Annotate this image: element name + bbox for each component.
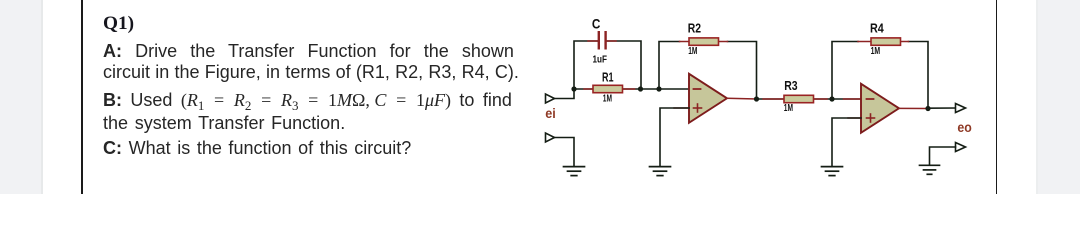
- wire input reference to ground: [555, 138, 575, 166]
- left page soft edge: [41, 0, 43, 194]
- resistor R2 label: [688, 21, 701, 35]
- resistor R4 label: [870, 22, 884, 36]
- left gray margin: [0, 0, 41, 194]
- resistor R4 body: [871, 38, 901, 45]
- svg-text:eo: eo: [957, 120, 971, 135]
- svg-text:C: C: [592, 16, 601, 32]
- line B1: [103, 91, 512, 109]
- capacitor value 1uF: [593, 54, 608, 65]
- svg-text:1M: 1M: [603, 94, 612, 105]
- svg-text:ei: ei: [545, 106, 556, 121]
- heading Q1): [103, 14, 134, 33]
- svg-text:1M: 1M: [688, 46, 697, 57]
- svg-text:1M: 1M: [784, 103, 793, 114]
- resistor R3 label: [784, 79, 797, 93]
- op-amp U2 minus sign: [867, 98, 874, 100]
- resistor R2 body: [689, 38, 719, 45]
- resistor R4 pin leads: [858, 41, 909, 43]
- wire U2 plus input to ground: [832, 118, 861, 166]
- resistor R4 value 1M: [871, 46, 881, 57]
- node F junction dot (U2 out): [925, 106, 930, 111]
- resistor R2 value 1M: [688, 46, 697, 57]
- ground (output reference): [920, 165, 940, 174]
- table cell left border: [81, 0, 83, 194]
- svg-text:R3: R3: [784, 79, 797, 93]
- wire capacitor branch left: [574, 41, 598, 89]
- op-amp U2 plus sign: [867, 114, 875, 122]
- output reference terminal arrow: [956, 143, 966, 152]
- output terminal eo arrow: [956, 104, 966, 113]
- wire output reference to ground: [930, 147, 956, 164]
- resistor R1 body: [593, 85, 623, 92]
- node D junction dot (U1 out): [754, 96, 759, 101]
- resistor R1 pin leads: [584, 88, 635, 90]
- op-amp U1 minus sign: [694, 88, 701, 90]
- capacitor C plates: [598, 31, 607, 50]
- wire input jog to node A: [555, 89, 575, 99]
- table cell right border: [996, 0, 997, 194]
- op-amp U1 body: [689, 74, 727, 123]
- line A2: [103, 63, 519, 81]
- line A1: [103, 42, 514, 60]
- wire stage2 net: [757, 98, 862, 100]
- label eo: [957, 120, 971, 135]
- wire main net stage1: [574, 88, 689, 90]
- op-amp U1 plus input pin stub: [674, 107, 689, 109]
- resistor R3 value 1M: [784, 103, 793, 114]
- resistor R2 pin leads: [680, 41, 728, 43]
- node A junction dot: [571, 86, 576, 91]
- svg-text:1M: 1M: [871, 46, 881, 57]
- op-amp U2 plus input pin stub: [848, 117, 861, 119]
- wire R4 feedback loop: [832, 42, 928, 109]
- node B junction dot (C right): [638, 86, 643, 91]
- wire R2 feedback loop: [659, 42, 757, 100]
- ground (U1 plus input): [650, 167, 671, 176]
- label ei: [545, 106, 556, 121]
- op-amp U2 body: [861, 84, 899, 133]
- wire U1 plus input to ground: [660, 108, 689, 166]
- ground (U2 plus input): [822, 167, 843, 176]
- op-amp U2 output pin: [899, 107, 928, 109]
- wire capacitor branch right: [607, 41, 641, 89]
- ground (input reference): [564, 167, 585, 176]
- node C junction dot (R2 left): [656, 86, 661, 91]
- input terminal ei arrow: [546, 94, 555, 103]
- resistor R3 pin leads: [763, 98, 827, 100]
- svg-text:R2: R2: [688, 21, 701, 35]
- svg-text:R4: R4: [870, 22, 884, 36]
- wire U2 out to eo terminal: [928, 107, 956, 109]
- line C1: [103, 139, 411, 157]
- input reference terminal arrow: [546, 133, 555, 142]
- capacitor label C: [592, 16, 601, 32]
- op-amp U2 minus input pin stub: [844, 98, 862, 100]
- op-amp U1 output pin: [727, 97, 757, 100]
- line B2: [103, 114, 345, 132]
- resistor R1 label: [602, 70, 614, 84]
- svg-text:R1: R1: [602, 70, 614, 84]
- resistor R1 value 1M: [603, 94, 612, 105]
- node E junction dot (R4 left): [829, 96, 834, 101]
- resistor R3 body: [784, 95, 814, 102]
- op-amp U1 plus sign: [694, 104, 702, 112]
- right page soft edge: [1036, 0, 1038, 194]
- capacitor C pin stubs: [588, 40, 616, 42]
- right gray margin: [1038, 0, 1080, 194]
- svg-text:1uF: 1uF: [593, 54, 608, 65]
